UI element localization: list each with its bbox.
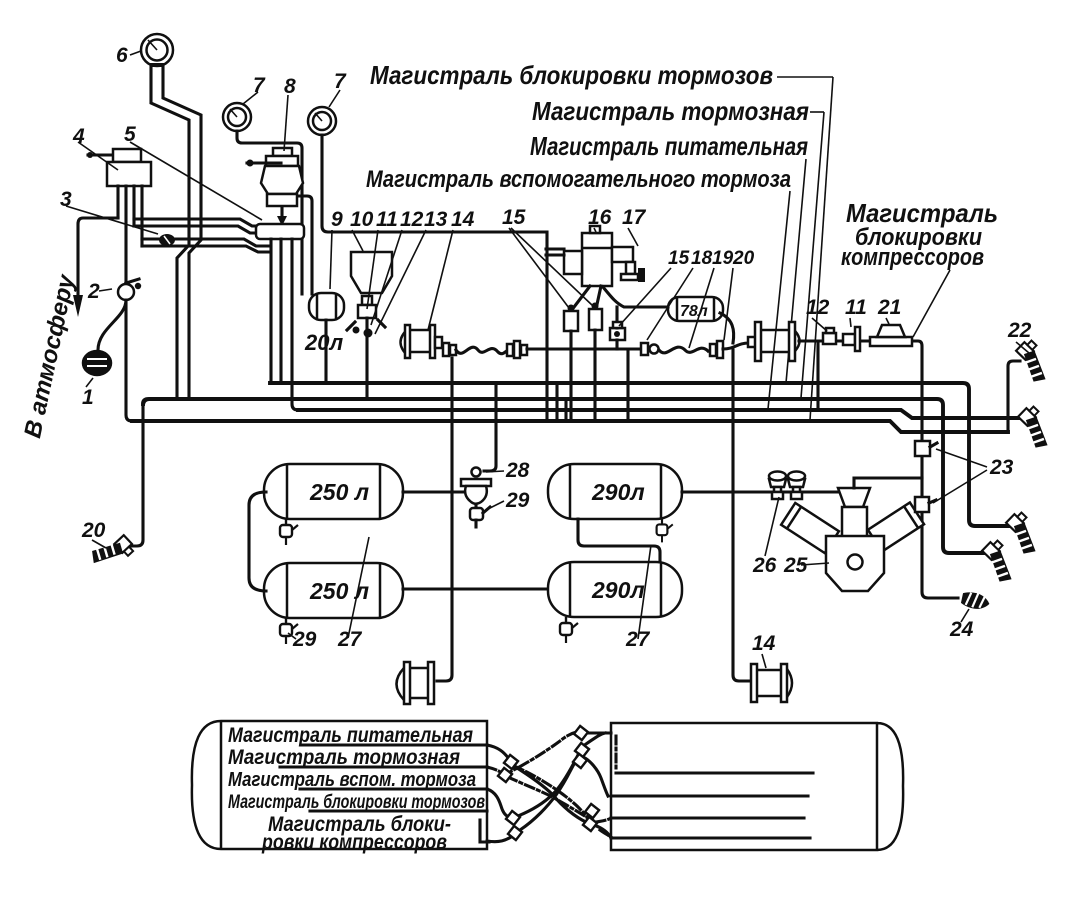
compressor-lock valve 21 [870, 337, 912, 346]
wire: valve 8 pipe down to bus line3 left end [292, 239, 298, 410]
svg-text:15: 15 [668, 248, 690, 269]
wire: cooler outlet to valve row and down-corner [799, 341, 958, 598]
wire: gauge 6 pipe (double line) [151, 66, 189, 397]
brake valve 8 body [261, 166, 303, 194]
wire: valve 8 pipe down b [279, 239, 282, 382]
safety valve 15b [589, 309, 602, 330]
bus line 3 (aux brake) with step and extension to coupling F3 [298, 410, 1024, 418]
filter 28 (moisture separator) [472, 468, 481, 477]
compressor 25 intake pipe [854, 478, 922, 488]
air tank 290l lower [548, 562, 682, 617]
svg-text:29: 29 [292, 628, 317, 651]
wire: bus line2 left drop to coupling 20 [130, 404, 143, 546]
valve 11 (right) [843, 334, 855, 345]
twin unloader valve 26 left [769, 472, 786, 500]
svg-text:13: 13 [424, 208, 448, 231]
wire: funnel stack down to bus line2 [365, 318, 368, 398]
valve 4 lever [88, 153, 137, 156]
hose: top entering line to trailer tank [585, 731, 611, 734]
svg-text:11: 11 [845, 296, 867, 319]
compressor 25 intake funnel [838, 488, 870, 507]
tank 78l [668, 297, 723, 321]
compressor 25 right cylinder [868, 502, 924, 551]
coupling F1 [999, 510, 1048, 559]
svg-text:17: 17 [622, 206, 647, 229]
leader wire to bus: brake-lock line [810, 77, 833, 420]
drain valve 29 under filter [474, 505, 477, 508]
wire: unit 16 outlet to tank 78l [603, 287, 668, 307]
wire: valve4 to valve8 lower pipe (double) [142, 239, 268, 246]
valve 4 body [107, 162, 151, 186]
wire: filter 28 feed from bus via elbow [484, 383, 496, 471]
chamber 14 right (ribbed) [751, 664, 757, 702]
wire: main middle line to right [527, 347, 641, 350]
wire: drop at x818 to bus line3 [816, 341, 819, 410]
svg-text:компрессоров: компрессоров [841, 244, 984, 271]
svg-text:250 л: 250 л [309, 479, 369, 505]
svg-text:78л: 78л [680, 303, 708, 320]
svg-text:12: 12 [400, 208, 424, 231]
wire: gauge 7 right pipe down and to unit 16 [322, 135, 546, 232]
wire: unit 16 outlets [571, 286, 601, 311]
coupling F2 [975, 538, 1024, 587]
hose 1 right coupling [507, 344, 513, 356]
drain valve 29 on lower 250l [280, 618, 298, 644]
hose: lock crossover from bracket [487, 757, 608, 842]
svg-text:14: 14 [451, 208, 475, 231]
trailer internal line A [616, 771, 813, 774]
trailer internal line C [611, 816, 804, 819]
hose: supply crossover [487, 745, 611, 838]
wire: valve 4 port a down [116, 186, 119, 218]
compressor 25 center cylinder [842, 507, 867, 537]
coupling 22 top right [1009, 338, 1058, 387]
wire: 290l tanks interconnect [578, 519, 660, 562]
svg-text:290л: 290л [591, 577, 645, 603]
chamber 14 (mid) [401, 329, 409, 356]
wire: valve 4 port b down to bus line 4 (left terminus) [126, 186, 132, 421]
trailer internal dash-dot drop [614, 736, 617, 772]
legend line 4 (brake lock) [310, 809, 487, 812]
coupling 20 (to consumer) [87, 528, 136, 576]
svg-text:28: 28 [505, 459, 530, 482]
chamber (ribbed) bottom-left [397, 668, 405, 700]
hose 2 right coupling [710, 344, 716, 356]
wire: middle line drop to bus [626, 349, 629, 420]
svg-text:23: 23 [989, 456, 1014, 479]
short bus tie x566 [564, 399, 567, 420]
wire: 250l tanks interconnect loop [249, 492, 266, 591]
leader wire to bus: supply line [786, 159, 806, 383]
svg-text:20: 20 [732, 248, 755, 269]
valve 15c on middle line [610, 328, 625, 340]
wire: valve 4 port d down [140, 186, 143, 246]
short bus tie x557 [555, 383, 558, 420]
svg-text:29: 29 [505, 489, 530, 512]
drain valve on upper 290l [657, 519, 673, 542]
hose: brake crossover (dash-dot) [487, 767, 611, 822]
wire: gauge 7 left pipe to tank 20l feed [237, 131, 302, 294]
pressure gauge 7 (left) [223, 103, 251, 131]
svg-text:10: 10 [350, 208, 374, 231]
wire: supply line lower tanks row y589 [403, 587, 550, 590]
svg-text:22: 22 [1007, 319, 1032, 342]
wire: hose2 to cooler [723, 343, 749, 349]
trailer legend tank outline [192, 721, 487, 849]
leader wire to bus: aux brake line [768, 191, 790, 409]
hose 2 left coupling [641, 343, 648, 355]
pressure regulator 16 [582, 233, 612, 286]
compressor 25 left cylinder [781, 503, 839, 553]
wire: unit16 feed vertical x547 [545, 232, 548, 421]
valve 4 top cap [113, 149, 141, 162]
svg-text:Магистраль тормозная: Магистраль тормозная [532, 96, 809, 126]
leader wire to bus: brake line [801, 112, 824, 398]
air tank 250l lower [264, 563, 403, 618]
air tank 290l upper [548, 464, 682, 519]
svg-text:27: 27 [625, 628, 651, 651]
wire: riser to coupling 22 [1008, 361, 1020, 432]
leader wire: compressor-lock label to valve 21 [913, 270, 950, 337]
trailer internal line B [611, 794, 808, 797]
valve 2 on vertical pipe [118, 284, 134, 300]
cooler (ribbed cylinder) [748, 337, 756, 347]
svg-text:290л: 290л [591, 479, 645, 505]
legend line 2 (brake) [280, 765, 487, 768]
svg-text:ровки компрессоров: ровки компрессоров [261, 831, 447, 854]
wire: valve4 to valve8 upper pipe (double) [134, 219, 268, 226]
unit 17 bracket [612, 247, 633, 262]
svg-text:9: 9 [331, 208, 343, 231]
hose: dash-dot upper crossover [503, 732, 577, 775]
svg-text:1: 1 [82, 386, 94, 409]
hose 1 left coupling [443, 343, 449, 356]
tank 20l (9) [309, 293, 344, 320]
wire: valve 2 branch to silencer 1 [98, 300, 126, 350]
drain valve on lower 290l [560, 617, 578, 643]
svg-text:18: 18 [691, 248, 713, 269]
trailer internal line D [611, 836, 810, 839]
svg-text:14: 14 [752, 632, 776, 655]
svg-text:16: 16 [588, 206, 612, 229]
bus line 2 (brake) left drop drawn in leftside; main run with right drop to coupling F2 [143, 399, 988, 553]
brake valve 8 mid section [267, 194, 297, 206]
legend line 3 (aux) [300, 787, 487, 790]
wire: valve 15b drop [593, 330, 596, 420]
svg-text:21: 21 [877, 296, 901, 319]
svg-text:12: 12 [806, 296, 830, 319]
bus line 1 (supply) with right drop to coupling F1 [270, 383, 1010, 526]
svg-text:26: 26 [752, 554, 777, 577]
wire: valve 15a drop [569, 331, 572, 420]
wire: valve 8 pipe down a [269, 239, 272, 382]
svg-text:19: 19 [712, 248, 734, 269]
svg-text:4: 4 [72, 125, 85, 148]
wire: supply line upper tanks row y492 [403, 490, 464, 493]
wire: supply to compressor governor line y492 [682, 490, 838, 493]
antifreeze pump 10 (funnel) [351, 252, 392, 293]
wire: exhaust to atmosphere [78, 218, 118, 297]
bus line 4 (brake lock) with step and extension up to coupling 22 [132, 421, 1008, 432]
control valve 23 lower on riser [915, 497, 929, 512]
brake valve 8 top cap [273, 148, 292, 156]
hose: aux crossover [487, 733, 605, 817]
legend bracket (compressor lock) [480, 820, 489, 842]
svg-text:Магистраль блокировки тормозов: Магистраль блокировки тормозов [370, 60, 773, 90]
coupling on line3 extension [1011, 404, 1060, 453]
control valve 23 upper on riser [915, 441, 930, 456]
wire: tank 20l drain to bus line1 [324, 320, 327, 382]
wire: valve 8 right loop to tank 20l [298, 196, 312, 294]
twin unloader valve 26 right [788, 472, 805, 500]
pressure gauge 7 (right) [308, 107, 336, 135]
atmosphere arrow [73, 295, 83, 317]
svg-text:20л: 20л [304, 330, 343, 355]
svg-text:15: 15 [502, 206, 526, 229]
flexible hose 1 [456, 347, 508, 353]
svg-text:6: 6 [116, 44, 128, 67]
valve 12 (right) [823, 333, 836, 344]
leader dash for brake line label [810, 111, 824, 113]
svg-text:8: 8 [284, 75, 296, 98]
legend line 1 (supply) [302, 743, 487, 746]
pressure gauge 6 [141, 34, 173, 66]
brake valve 8 internal arrow [280, 207, 283, 217]
hose: extra dash-dot crossover [509, 764, 611, 837]
tangle fitting diamonds [504, 755, 518, 769]
wire: valve 4 port c down [132, 186, 135, 226]
wire: 78l right link [720, 313, 734, 343]
trailer air tank outline [611, 723, 903, 850]
flexible hose 2 [659, 347, 708, 353]
valve 15a dark cap [568, 305, 575, 312]
silencer 1 [83, 351, 111, 375]
wire: drop to chamber 14 right (vertical x733) [733, 350, 751, 681]
svg-text:7: 7 [334, 70, 347, 93]
svg-text:11: 11 [376, 208, 398, 231]
svg-text:Магистраль питательная: Магистраль питательная [530, 131, 808, 161]
brake valve 8 junction block [256, 224, 304, 239]
brake valve 8 lever [247, 161, 281, 164]
svg-text:20: 20 [81, 519, 106, 542]
svg-text:Магистраль вспомогательного то: Магистраль вспомогательного тормоза [366, 166, 791, 193]
safety valve 15a [564, 311, 578, 331]
wire: vertical x452 from coupling down to lower chamber [437, 358, 452, 681]
svg-text:2: 2 [87, 280, 100, 303]
leader dash for brake-lock line label [777, 76, 833, 78]
valve stack 11-13 under funnel [362, 296, 372, 305]
air tank 250l upper [264, 464, 403, 519]
coupling 24 (curved nozzle) [960, 590, 991, 611]
valve 15b dark cap [592, 303, 599, 310]
drain valve 29 on upper 250l [280, 519, 298, 545]
compressor 25 crankcase [826, 536, 884, 591]
valve 3 (black) on pipe [159, 234, 175, 246]
